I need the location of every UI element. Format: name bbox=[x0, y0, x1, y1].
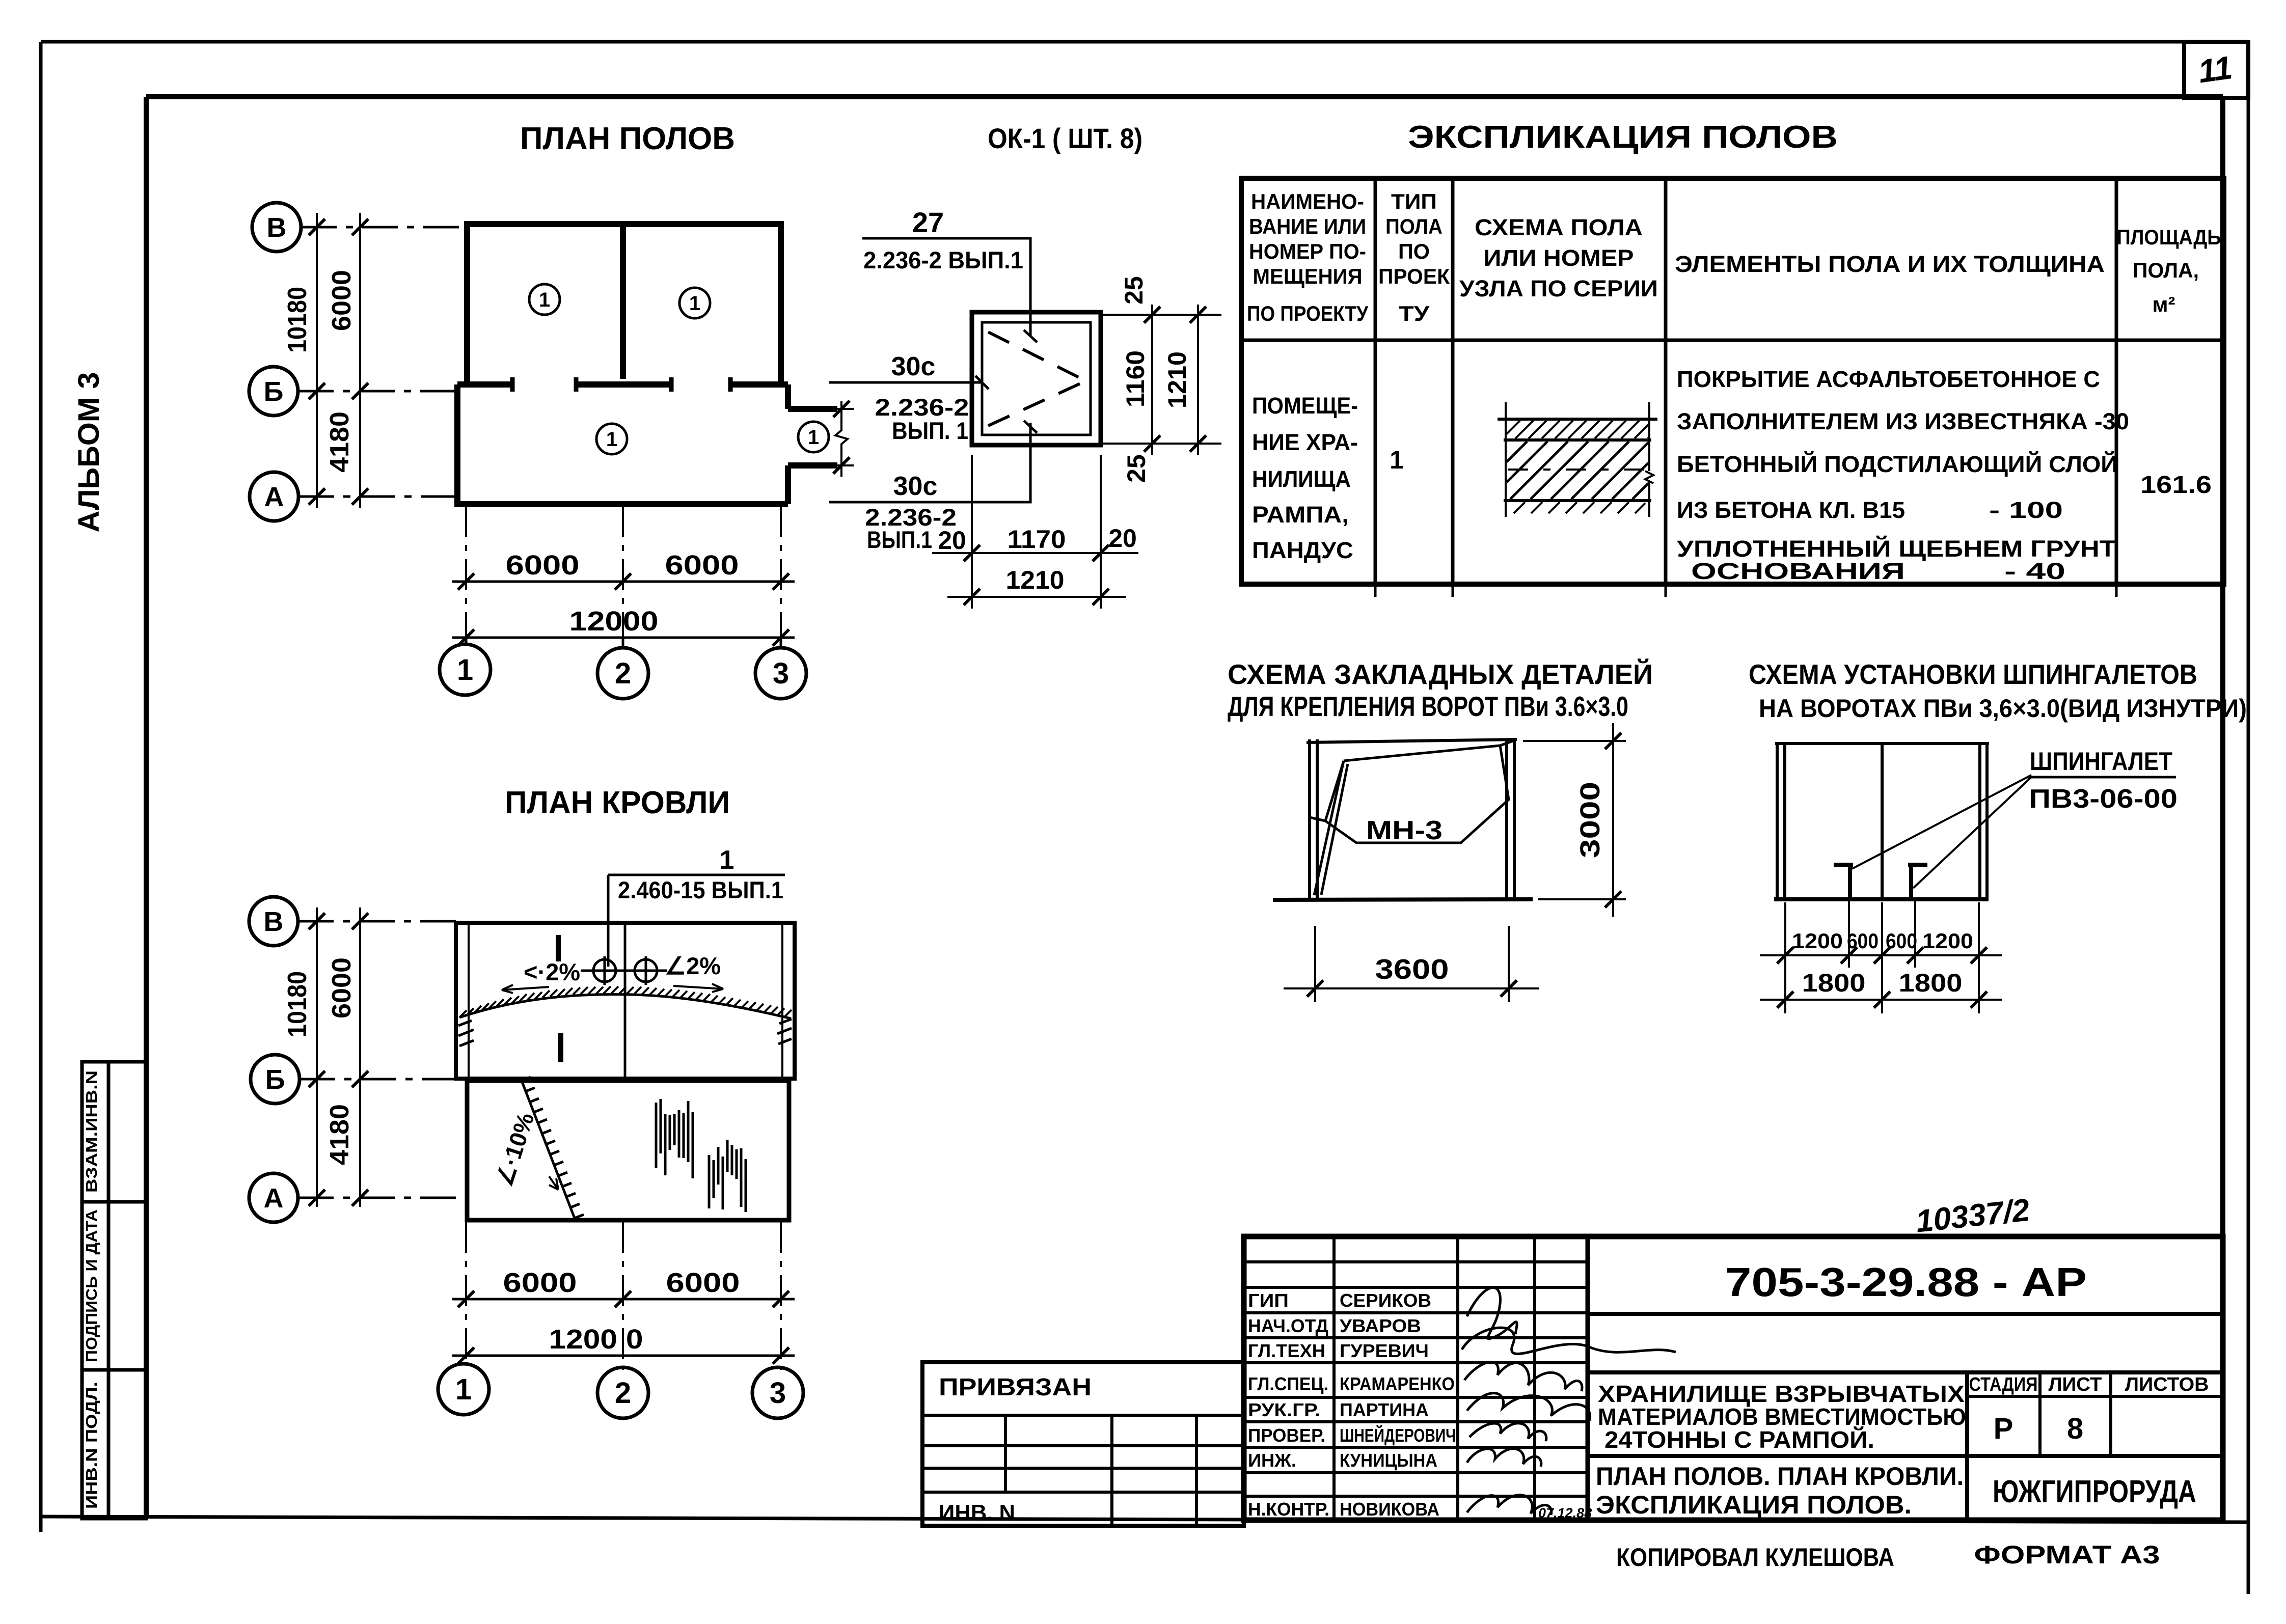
svg-text:В: В bbox=[267, 212, 287, 243]
svg-text:8: 8 bbox=[2067, 1412, 2083, 1445]
svg-text:ТИП: ТИП bbox=[1391, 189, 1437, 213]
svg-text:ГЛ.СПЕЦ.: ГЛ.СПЕЦ. bbox=[1248, 1373, 1328, 1394]
svg-text:ИЛИ НОМЕР: ИЛИ НОМЕР bbox=[1484, 245, 1634, 271]
svg-text:ГУРЕВИЧ: ГУРЕВИЧ bbox=[1340, 1340, 1429, 1361]
svg-text:СЕРИКОВ: СЕРИКОВ bbox=[1340, 1290, 1431, 1311]
svg-text:24ТОННЫ С РАМПОЙ.: 24ТОННЫ С РАМПОЙ. bbox=[1604, 1426, 1874, 1453]
svg-text:25: 25 bbox=[1122, 454, 1151, 483]
svg-text:1200 0: 1200 0 bbox=[549, 1324, 643, 1355]
svg-text:УЗЛА ПО СЕРИИ: УЗЛА ПО СЕРИИ bbox=[1459, 276, 1658, 301]
svg-text:НОМЕР ПО-: НОМЕР ПО- bbox=[1249, 239, 1366, 263]
svg-text:ЗАПОЛНИТЕЛЕМ ИЗ ИЗВЕСТНЯКА -30: ЗАПОЛНИТЕЛЕМ ИЗ ИЗВЕСТНЯКА -30 bbox=[1677, 408, 2129, 434]
svg-text:ПРОВЕР.: ПРОВЕР. bbox=[1248, 1425, 1325, 1446]
svg-text:07.12.88: 07.12.88 bbox=[1538, 1505, 1592, 1521]
svg-text:ЭЛЕМЕНТЫ ПОЛА И ИХ ТОЛЩИНА: ЭЛЕМЕНТЫ ПОЛА И ИХ ТОЛЩИНА bbox=[1675, 251, 2105, 277]
svg-text:ПОМЕЩЕ-: ПОМЕЩЕ- bbox=[1252, 393, 1358, 419]
svg-text:1170: 1170 bbox=[1008, 525, 1066, 554]
svg-text:2: 2 bbox=[615, 657, 631, 690]
svg-text:1800: 1800 bbox=[1802, 969, 1866, 997]
svg-text:4180: 4180 bbox=[325, 1104, 355, 1165]
svg-text:Б: Б bbox=[264, 376, 284, 407]
svg-text:27: 27 bbox=[912, 206, 944, 238]
svg-text:ИЗ БЕТОНА КЛ. В15: ИЗ БЕТОНА КЛ. В15 bbox=[1677, 497, 1905, 523]
svg-text:ПОЛА: ПОЛА bbox=[1385, 214, 1443, 238]
svg-text:1: 1 bbox=[606, 428, 617, 451]
svg-text:РУК.ГР.: РУК.ГР. bbox=[1248, 1399, 1320, 1420]
svg-text:ОК-1 ( ШТ. 8): ОК-1 ( ШТ. 8) bbox=[988, 122, 1142, 154]
svg-text:КОПИРОВАЛ КУЛЕШОВА: КОПИРОВАЛ КУЛЕШОВА bbox=[1616, 1543, 1894, 1572]
svg-text:4180: 4180 bbox=[325, 411, 355, 473]
svg-text:1: 1 bbox=[689, 292, 700, 315]
svg-text:6000: 6000 bbox=[506, 550, 580, 581]
svg-text:Б: Б bbox=[265, 1064, 285, 1095]
svg-text:- 40: - 40 bbox=[2004, 558, 2065, 584]
svg-text:МЕЩЕНИЯ: МЕЩЕНИЯ bbox=[1253, 264, 1363, 288]
svg-text:ФОРМАТ А3: ФОРМАТ А3 bbox=[1974, 1540, 2160, 1569]
svg-text:6000: 6000 bbox=[503, 1268, 577, 1298]
svg-text:600: 600 bbox=[1886, 929, 1917, 953]
svg-text:ГИП: ГИП bbox=[1248, 1290, 1289, 1311]
svg-text:ПВ3-06-00: ПВ3-06-00 bbox=[2029, 784, 2178, 814]
svg-text:ПРИВЯЗАН: ПРИВЯЗАН bbox=[939, 1374, 1092, 1401]
svg-text:ПО: ПО bbox=[1398, 239, 1430, 263]
svg-text:- 100: - 100 bbox=[1989, 497, 2063, 523]
svg-text:А: А bbox=[264, 1183, 284, 1214]
svg-text:А: А bbox=[264, 482, 284, 512]
svg-text:1: 1 bbox=[808, 426, 819, 449]
svg-text:1: 1 bbox=[457, 653, 473, 686]
svg-text:6000: 6000 bbox=[327, 957, 357, 1019]
svg-text:10180: 10180 bbox=[283, 287, 312, 353]
svg-text:ПОДПИСЬ И ДАТА: ПОДПИСЬ И ДАТА bbox=[83, 1209, 100, 1362]
svg-text:Н.КОНТР.: Н.КОНТР. bbox=[1248, 1499, 1329, 1520]
svg-text:6000: 6000 bbox=[665, 550, 739, 581]
svg-text:ИНЖ.: ИНЖ. bbox=[1248, 1450, 1296, 1471]
svg-text:БЕТОННЫЙ ПОДСТИЛАЮЩИЙ СЛОЙ: БЕТОННЫЙ ПОДСТИЛАЮЩИЙ СЛОЙ bbox=[1677, 451, 2118, 477]
svg-text:СТАДИЯ: СТАДИЯ bbox=[1969, 1374, 2038, 1395]
svg-text:ОСНОВАНИЯ: ОСНОВАНИЯ bbox=[1691, 558, 1905, 584]
svg-text:∠2%: ∠2% bbox=[665, 952, 721, 979]
svg-text:3: 3 bbox=[770, 1377, 786, 1410]
svg-text:20: 20 bbox=[938, 526, 966, 555]
svg-text:705-3-29.88 - АР: 705-3-29.88 - АР bbox=[1725, 1259, 2087, 1305]
svg-text:30с: 30с bbox=[893, 472, 938, 501]
svg-text:1800: 1800 bbox=[1899, 969, 1963, 997]
svg-text:12000: 12000 bbox=[569, 606, 659, 637]
svg-text:СХЕМА УСТАНОВКИ ШПИНГАЛЕТОВ: СХЕМА УСТАНОВКИ ШПИНГАЛЕТОВ bbox=[1749, 658, 2197, 690]
svg-text:ВАНИЕ ИЛИ: ВАНИЕ ИЛИ bbox=[1249, 214, 1366, 238]
svg-text:ДЛЯ КРЕПЛЕНИЯ ВОРОТ ПВи 3.6×3.: ДЛЯ КРЕПЛЕНИЯ ВОРОТ ПВи 3.6×3.0 bbox=[1228, 691, 1628, 722]
svg-text:ПЛАН ПОЛОВ. ПЛАН КРОВЛИ.: ПЛАН ПОЛОВ. ПЛАН КРОВЛИ. bbox=[1596, 1462, 1964, 1491]
svg-text:2.460-15 ВЫП.1: 2.460-15 ВЫП.1 bbox=[618, 876, 783, 903]
svg-text:ТУ: ТУ bbox=[1399, 301, 1430, 325]
svg-text:РАМПА,: РАМПА, bbox=[1252, 502, 1349, 528]
svg-text:ЛИСТ: ЛИСТ bbox=[2049, 1374, 2102, 1395]
svg-text:6000: 6000 bbox=[327, 270, 357, 331]
svg-text:ШПИНГАЛЕТ: ШПИНГАЛЕТ bbox=[2030, 747, 2172, 776]
svg-text:20: 20 bbox=[1108, 524, 1137, 553]
svg-text:В: В bbox=[264, 906, 284, 937]
svg-text:ИНВ. N: ИНВ. N bbox=[939, 1500, 1015, 1525]
svg-text:ГЛ.ТЕХН: ГЛ.ТЕХН bbox=[1248, 1340, 1325, 1361]
svg-text:1210: 1210 bbox=[1006, 566, 1065, 594]
svg-text:НА ВОРОТАХ ПВи 3,6×3.0(ВИД ИЗН: НА ВОРОТАХ ПВи 3,6×3.0(ВИД ИЗНУТРИ) bbox=[1759, 694, 2247, 723]
svg-text:ПО ПРОЕКТУ: ПО ПРОЕКТУ bbox=[1247, 301, 1369, 325]
svg-text:КУНИЦЫНА: КУНИЦЫНА bbox=[1340, 1450, 1437, 1471]
svg-text:1160: 1160 bbox=[1121, 350, 1150, 407]
svg-text:ЭКСПЛИКАЦИЯ ПОЛОВ.: ЭКСПЛИКАЦИЯ ПОЛОВ. bbox=[1596, 1491, 1912, 1519]
svg-text:м²: м² bbox=[2152, 292, 2175, 316]
svg-text:1: 1 bbox=[455, 1373, 472, 1406]
svg-text:АЛЬБОМ 3: АЛЬБОМ 3 bbox=[72, 372, 105, 533]
svg-text:НОВИКОВА: НОВИКОВА bbox=[1340, 1499, 1439, 1520]
svg-text:ЭКСПЛИКАЦИЯ ПОЛОВ: ЭКСПЛИКАЦИЯ ПОЛОВ bbox=[1408, 120, 1838, 155]
svg-text:СХЕМА ПОЛА: СХЕМА ПОЛА bbox=[1475, 214, 1643, 240]
svg-text:НИЕ ХРА-: НИЕ ХРА- bbox=[1252, 429, 1358, 455]
svg-text:3000: 3000 bbox=[1575, 782, 1605, 858]
svg-text:ПРОЕК: ПРОЕК bbox=[1378, 264, 1450, 288]
svg-text:ПЛАН КРОВЛИ: ПЛАН КРОВЛИ bbox=[505, 785, 730, 820]
svg-text:1200: 1200 bbox=[1792, 929, 1843, 953]
svg-text:1: 1 bbox=[539, 289, 550, 311]
svg-text:ВЗАМ.ИНВ.N: ВЗАМ.ИНВ.N bbox=[83, 1070, 100, 1193]
svg-text:25: 25 bbox=[1120, 276, 1148, 305]
svg-text:1210: 1210 bbox=[1163, 351, 1191, 408]
svg-text:КРАМАРЕНКО: КРАМАРЕНКО bbox=[1340, 1373, 1455, 1394]
svg-text:ПАНДУС: ПАНДУС bbox=[1252, 537, 1353, 563]
svg-text:2: 2 bbox=[615, 1377, 631, 1410]
svg-text:11: 11 bbox=[2196, 49, 2235, 90]
svg-text:1: 1 bbox=[720, 845, 734, 875]
svg-text:НАЧ.ОТД: НАЧ.ОТД bbox=[1248, 1315, 1328, 1336]
svg-text:30с: 30с bbox=[891, 352, 936, 381]
svg-text:3: 3 bbox=[773, 657, 789, 690]
svg-text:ПЛАН ПОЛОВ: ПЛАН ПОЛОВ bbox=[520, 121, 735, 156]
svg-text:6000: 6000 bbox=[666, 1268, 740, 1298]
svg-text:ВЫП.1: ВЫП.1 bbox=[867, 526, 932, 553]
svg-text:1: 1 bbox=[1390, 446, 1404, 474]
svg-text:2.236-2 ВЫП.1: 2.236-2 ВЫП.1 bbox=[863, 246, 1023, 273]
svg-text:ШНЕЙДЕРОВИЧ: ШНЕЙДЕРОВИЧ bbox=[1340, 1424, 1456, 1446]
svg-text:ПОЛА,: ПОЛА, bbox=[2133, 258, 2199, 282]
svg-text:НАИМЕНО-: НАИМЕНО- bbox=[1251, 189, 1364, 213]
svg-text:ЮЖГИПРОРУДА: ЮЖГИПРОРУДА bbox=[1993, 1474, 2196, 1509]
svg-text:ПЛОЩАДЬ: ПЛОЩАДЬ bbox=[2117, 225, 2221, 249]
svg-text:3600: 3600 bbox=[1375, 953, 1449, 985]
svg-text:МН-3: МН-3 bbox=[1366, 816, 1443, 845]
svg-text:10180: 10180 bbox=[283, 971, 312, 1037]
svg-text:УВАРОВ: УВАРОВ bbox=[1340, 1315, 1421, 1336]
svg-text:ВЫП. 1: ВЫП. 1 bbox=[892, 417, 968, 444]
svg-text:Р: Р bbox=[1994, 1412, 2013, 1445]
svg-text:ЛИСТОВ: ЛИСТОВ bbox=[2125, 1374, 2209, 1395]
svg-text:ИНВ.N ПОДЛ.: ИНВ.N ПОДЛ. bbox=[83, 1382, 100, 1509]
svg-text:161.6: 161.6 bbox=[2140, 472, 2212, 499]
svg-text:ПОКРЫТИЕ АСФАЛЬТОБЕТОННОЕ С: ПОКРЫТИЕ АСФАЛЬТОБЕТОННОЕ С bbox=[1677, 366, 2100, 392]
svg-text:НИЛИЩА: НИЛИЩА bbox=[1252, 466, 1351, 492]
svg-text:1200: 1200 bbox=[1922, 929, 1973, 953]
svg-text:<·2%: <·2% bbox=[524, 958, 580, 985]
svg-text:600: 600 bbox=[1847, 929, 1879, 953]
svg-text:СХЕМА ЗАКЛАДНЫХ ДЕТАЛЕЙ: СХЕМА ЗАКЛАДНЫХ ДЕТАЛЕЙ bbox=[1228, 658, 1653, 690]
svg-text:ПАРТИНА: ПАРТИНА bbox=[1340, 1399, 1429, 1420]
